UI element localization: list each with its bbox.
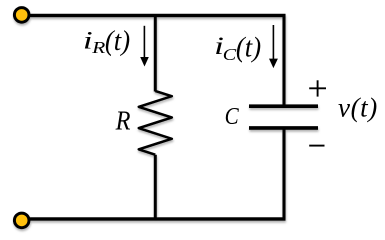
svg-text:R: R xyxy=(91,38,106,57)
svg-text:C: C xyxy=(225,103,240,130)
svg-text:R: R xyxy=(115,105,131,135)
svg-text:(t): (t) xyxy=(236,31,261,63)
svg-text:(t): (t) xyxy=(105,25,130,57)
svg-text:v(t): v(t) xyxy=(338,92,378,122)
svg-text:C: C xyxy=(223,45,237,64)
